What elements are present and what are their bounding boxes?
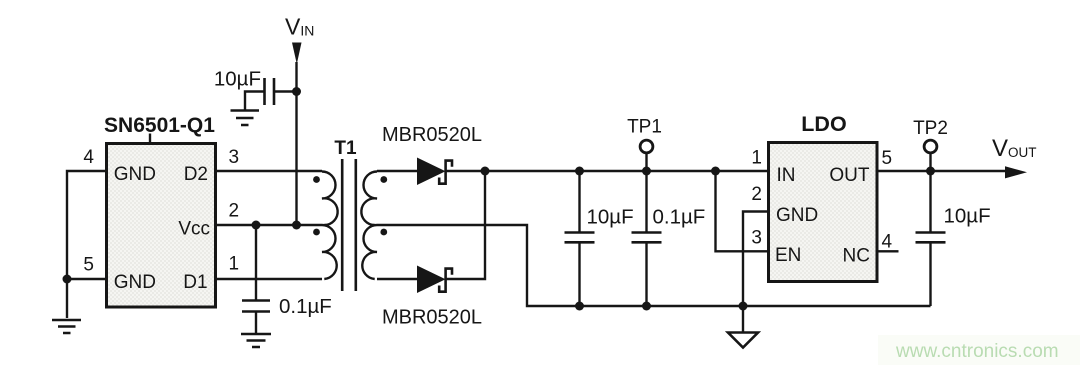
svg-text:EN: EN xyxy=(775,245,801,266)
svg-text:MBR0520L: MBR0520L xyxy=(382,307,482,329)
svg-text:MBR0520L: MBR0520L xyxy=(382,124,482,146)
svg-text:5: 5 xyxy=(882,148,893,169)
svg-text:D2: D2 xyxy=(184,164,208,185)
svg-text:www.cntronics.com: www.cntronics.com xyxy=(895,341,1059,362)
svg-text:10µF: 10µF xyxy=(214,68,261,91)
svg-text:NC: NC xyxy=(843,245,870,266)
svg-text:1: 1 xyxy=(229,254,240,275)
svg-text:2: 2 xyxy=(229,201,240,222)
svg-text:TP1: TP1 xyxy=(627,117,662,138)
svg-text:0.1µF: 0.1µF xyxy=(279,295,332,318)
svg-text:GND: GND xyxy=(776,205,818,226)
svg-text:GND: GND xyxy=(114,164,156,185)
svg-text:GND: GND xyxy=(114,272,156,293)
svg-text:IN: IN xyxy=(777,165,796,186)
svg-text:LDO: LDO xyxy=(801,112,846,136)
svg-text:1: 1 xyxy=(751,148,762,169)
svg-text:3: 3 xyxy=(751,228,762,249)
svg-text:TP2: TP2 xyxy=(913,118,948,139)
svg-text:D1: D1 xyxy=(183,272,207,293)
svg-text:5: 5 xyxy=(83,255,94,276)
svg-text:OUT: OUT xyxy=(829,165,870,186)
svg-text:Vcc: Vcc xyxy=(178,219,210,240)
svg-text:0.1µF: 0.1µF xyxy=(653,206,706,229)
svg-text:4: 4 xyxy=(882,232,893,253)
svg-text:10µF: 10µF xyxy=(944,205,991,228)
svg-text:SN6501-Q1: SN6501-Q1 xyxy=(104,114,215,137)
svg-text:2: 2 xyxy=(751,184,762,205)
svg-text:T1: T1 xyxy=(334,138,357,159)
svg-text:10µF: 10µF xyxy=(587,206,634,229)
svg-text:3: 3 xyxy=(229,147,240,168)
svg-text:4: 4 xyxy=(83,147,94,168)
